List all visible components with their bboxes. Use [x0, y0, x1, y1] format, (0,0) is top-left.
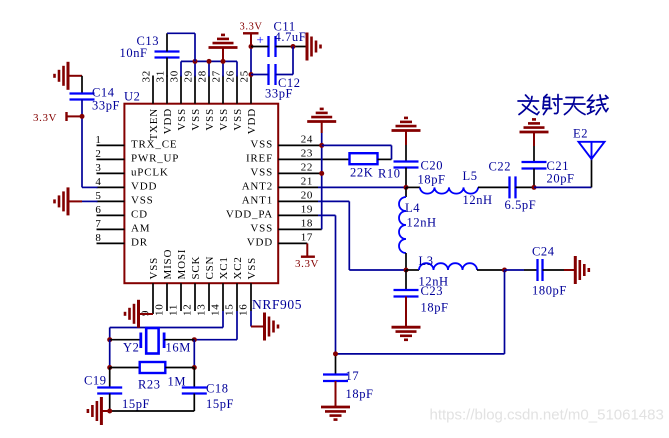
svg-text:C20: C20 [421, 159, 444, 173]
svg-text:26: 26 [225, 70, 237, 83]
pin number 30 [169, 70, 181, 83]
capacitor C18 [182, 368, 207, 412]
svg-text:6.5pF: 6.5pF [505, 198, 537, 212]
wire VSS column right [321, 133, 323, 229]
svg-text:16: 16 [238, 303, 250, 316]
svg-text:18pF: 18pF [421, 301, 449, 315]
resistor R10 22K [350, 153, 378, 164]
pin number 21 [301, 175, 313, 187]
designator U2 [124, 90, 140, 104]
svg-text:MISO: MISO [162, 249, 174, 280]
pin number 2 [95, 148, 101, 160]
svg-text:VDD: VDD [131, 180, 157, 192]
pin 26 VSS stub [236, 76, 238, 104]
pin name VSS [148, 257, 160, 280]
svg-text:L3: L3 [419, 254, 434, 268]
svg-text:C23: C23 [421, 284, 444, 298]
pin name DR [131, 236, 148, 248]
svg-text:3.3V: 3.3V [240, 22, 263, 33]
pin number 19 [301, 203, 313, 215]
ground bottom left [88, 397, 110, 425]
pin number 5 [95, 190, 101, 202]
pin 13 CSN stub [208, 283, 210, 311]
ground above pin 24 [307, 109, 336, 133]
svg-text:NRF905: NRF905 [252, 297, 302, 312]
pin number 31 [155, 70, 167, 83]
pin 30 VSS stub [180, 76, 182, 104]
wire ground to C14 [81, 76, 83, 94]
capacitor C12 [269, 64, 276, 85]
svg-text:C19: C19 [84, 374, 107, 388]
pin 8 DR stub [97, 242, 125, 244]
svg-text:VSS: VSS [250, 166, 273, 178]
svg-text:C22: C22 [489, 160, 512, 174]
wire pin31 to C13 and loop to bus [167, 33, 195, 76]
pin number 14 [210, 303, 222, 316]
svg-text:4.7uF: 4.7uF [275, 30, 307, 44]
label C21 [547, 159, 570, 173]
capacitor C17 [323, 375, 348, 382]
node crystal right [192, 337, 197, 342]
label L3 [419, 254, 434, 268]
svg-text:21: 21 [301, 175, 313, 187]
crystal Y2 16M [110, 328, 195, 354]
label 3.3V left [33, 112, 57, 124]
label 22K [350, 166, 373, 180]
svg-text:10nF: 10nF [120, 46, 148, 60]
svg-text:VDD: VDD [246, 108, 258, 134]
pin name TRX_CE [131, 138, 177, 150]
svg-text:33pF: 33pF [265, 87, 293, 101]
svg-text:17: 17 [346, 369, 360, 383]
svg-text:33pF: 33pF [92, 99, 120, 113]
wire C22 to C21 node [516, 186, 535, 188]
pin number 15 [224, 303, 236, 316]
svg-text:XC1: XC1 [218, 256, 230, 279]
pin 24 VSS stub [278, 144, 322, 146]
value 4.7uF [275, 30, 307, 44]
pin number 9 [140, 310, 152, 316]
pin name VDD [131, 180, 157, 192]
value 15pF (C19) [122, 397, 150, 411]
svg-text:10: 10 [154, 303, 166, 316]
svg-text:5: 5 [95, 190, 101, 202]
svg-text:VSS: VSS [250, 138, 273, 150]
pin name VDD [247, 236, 273, 248]
svg-text:L4: L4 [405, 201, 420, 215]
pin number 28 [197, 70, 209, 83]
pin 14 XC1 stub [222, 283, 224, 311]
pin name XC2 [232, 256, 244, 279]
pin name VSS [232, 108, 244, 131]
value 12nH (L4) [407, 216, 437, 230]
svg-text:VSS: VSS [246, 257, 258, 280]
svg-text:24: 24 [301, 133, 313, 145]
svg-text:CSN: CSN [204, 256, 216, 280]
pin number 25 [239, 70, 251, 83]
value 180pF [532, 284, 567, 298]
svg-text:12nH: 12nH [463, 193, 493, 207]
label 发射天线 (transmit antenna) [518, 95, 608, 115]
pin 5 VSS stub [97, 200, 125, 202]
ground below C17 [321, 381, 350, 420]
wire VSS bus top [181, 61, 237, 76]
pin name XC1 [218, 256, 230, 279]
pin number 4 [95, 176, 101, 188]
pin 25 VDD stub [250, 76, 252, 104]
pin number 18 [301, 217, 313, 229]
node pin25/C12 [249, 72, 254, 77]
svg-text:25: 25 [239, 70, 251, 83]
value 33pF (C14) [92, 99, 120, 113]
label E2 [573, 127, 588, 141]
node C14/3.3V [80, 114, 85, 119]
pin 6 CD stub [97, 214, 125, 216]
pin 21 ANT2 stub [278, 186, 318, 188]
node R23 right [192, 365, 197, 370]
svg-text:7: 7 [95, 218, 101, 230]
label C20 [421, 159, 444, 173]
svg-text:13: 13 [196, 303, 208, 316]
pin 27 VSS stub [222, 76, 224, 104]
value 33pF (C12) [265, 87, 293, 101]
svg-text:+: + [257, 32, 265, 47]
svg-text:3: 3 [95, 162, 101, 174]
resistor R23 1M [110, 362, 195, 373]
svg-text:R23: R23 [138, 378, 161, 392]
node L3/C24/VDD_PA [502, 268, 507, 273]
svg-text:18pF: 18pF [346, 387, 374, 401]
pin number 22 [301, 161, 313, 173]
svg-text:14: 14 [210, 303, 222, 316]
watermark [430, 407, 664, 424]
wire L4 to ANT1 node [405, 253, 407, 270]
pin name VSS [246, 257, 258, 280]
pin name AM [131, 222, 150, 234]
pin 29 VSS stub [194, 76, 196, 104]
ground above C20 [392, 118, 421, 145]
pin name VSS [218, 108, 230, 131]
pin number 32 [141, 70, 153, 83]
label C12 [278, 76, 301, 90]
pin 9 VSS stub [152, 283, 154, 311]
svg-text:11: 11 [168, 304, 180, 316]
svg-text:20: 20 [301, 189, 313, 201]
wire VDD_PA pin19 down [318, 215, 336, 374]
pin name TXEN [148, 108, 160, 141]
value 20pF [547, 172, 575, 186]
svg-text:30: 30 [169, 70, 181, 83]
pin 20 ANT1 stub [278, 200, 318, 202]
label R23 [138, 378, 161, 392]
svg-text:8: 8 [95, 232, 101, 244]
pin number 17 [301, 231, 313, 243]
ground right of C11 [307, 33, 321, 61]
capacitor C22 [510, 176, 516, 198]
pin name MOSI [176, 249, 188, 280]
node pin19 rail [333, 351, 338, 356]
capacitor C24 [505, 259, 543, 281]
pin 17 VDD stub [278, 242, 307, 244]
pin name VSS [190, 108, 202, 131]
svg-text:VSS: VSS [131, 194, 154, 206]
svg-text:C24: C24 [532, 245, 555, 259]
node pin 22 [319, 171, 324, 176]
svg-text:16M: 16M [166, 341, 191, 355]
capacitor C13 [155, 52, 180, 58]
pin number 13 [196, 303, 208, 316]
wire ground to pin 5 [82, 200, 98, 202]
label C18 [206, 382, 229, 396]
ground top left [55, 62, 83, 90]
label C19 [84, 374, 107, 388]
svg-text:uPCLK: uPCLK [131, 166, 169, 178]
svg-text:15: 15 [224, 303, 236, 316]
svg-text:VSS: VSS [148, 257, 160, 280]
svg-text:C14: C14 [92, 86, 115, 100]
svg-text:VDD: VDD [247, 236, 273, 248]
capacitor C19 [97, 368, 122, 412]
wire pin 9 to ground [139, 311, 154, 314]
svg-text:E2: E2 [573, 127, 588, 141]
wire crystal rails down to R23 [110, 340, 195, 368]
pin 28 VSS stub [208, 76, 210, 104]
pin name VSS [250, 166, 273, 178]
svg-text:SCK: SCK [190, 256, 202, 280]
pin number 1 [95, 134, 101, 146]
pin name VSS [131, 194, 154, 206]
svg-text:DR: DR [131, 236, 148, 248]
value 10nF [120, 46, 148, 60]
pin name VSS [176, 108, 188, 131]
svg-text:4: 4 [95, 176, 101, 188]
svg-text:180pF: 180pF [532, 284, 567, 298]
pin 10 MISO stub [166, 283, 168, 311]
wire node to L3 [406, 269, 419, 271]
pin name VSS [250, 222, 273, 234]
label 16M [166, 341, 191, 355]
wire RF node down to L4 [405, 187, 407, 197]
svg-text:VSS: VSS [232, 108, 244, 131]
svg-text:28: 28 [197, 70, 209, 83]
label C23 [421, 284, 444, 298]
ground right of pin 16 [265, 313, 279, 341]
svg-text:ANT1: ANT1 [242, 194, 273, 206]
svg-text:15pF: 15pF [122, 397, 150, 411]
capacitor C11 [269, 36, 276, 57]
svg-text:https://blog.csdn.net/m0_51061: https://blog.csdn.net/m0_51061483 [430, 407, 664, 424]
value 18pF (C17) [346, 387, 374, 401]
inductor L3 [419, 263, 477, 270]
label L4 [405, 201, 420, 215]
pin number 6 [95, 204, 101, 216]
svg-text:15pF: 15pF [206, 397, 234, 411]
pin name uPCLK [131, 166, 169, 178]
svg-text:CD: CD [131, 208, 148, 220]
node RF/C20/L4/L5 [404, 185, 409, 190]
pin name IREF [246, 152, 273, 164]
wire pin25 vertical [250, 47, 252, 76]
pin number 10 [154, 303, 166, 316]
svg-text:22K: 22K [350, 166, 373, 180]
svg-text:18: 18 [301, 217, 313, 229]
svg-text:C18: C18 [206, 382, 229, 396]
svg-text:32: 32 [141, 70, 153, 83]
value 6.5pF [505, 198, 537, 212]
antenna E2 [579, 142, 605, 159]
svg-text:22: 22 [301, 161, 313, 173]
ground top middle [209, 35, 238, 62]
power 3.3V left [67, 112, 83, 121]
pin 16 VSS stub [250, 283, 252, 311]
junction on bus at pin 27 [221, 59, 226, 64]
pin name ANT2 [242, 180, 273, 192]
svg-text:Y2: Y2 [123, 341, 139, 355]
plus sign C11 [257, 32, 265, 47]
wire C21 to RF line [533, 169, 535, 188]
svg-text:VSS: VSS [190, 108, 202, 131]
label C14 [92, 86, 115, 100]
svg-text:31: 31 [155, 70, 167, 83]
svg-text:1: 1 [95, 134, 101, 146]
value 18pF (C20) [418, 173, 446, 187]
wire ANT1 pin20 routing [318, 201, 406, 270]
svg-text:IREF: IREF [246, 152, 273, 164]
label C22 [489, 160, 512, 174]
value 15pF (C18) [206, 397, 234, 411]
label R10 [378, 167, 401, 181]
svg-text:3.3V: 3.3V [295, 258, 319, 270]
pin number 11 [168, 304, 180, 316]
label Y2 [123, 341, 139, 355]
pin number 23 [301, 147, 313, 159]
pin 19 VDD_PA stub [278, 214, 318, 216]
capacitor C23 [394, 270, 419, 297]
svg-text:PWR_UP: PWR_UP [131, 152, 179, 164]
wire C20 to RF node [405, 168, 407, 188]
svg-text:VSS: VSS [250, 222, 273, 234]
svg-text:20pF: 20pF [547, 172, 575, 186]
svg-text:L5: L5 [463, 169, 478, 183]
pin 11 MOSI stub [180, 283, 182, 311]
node bottom rail/ground [107, 409, 112, 414]
pin 7 AM stub [97, 228, 125, 230]
power 3.3V pin17 [301, 243, 315, 256]
wire XC1 pin14 to crystal rail [110, 311, 223, 340]
svg-text:3.3V: 3.3V [33, 112, 57, 124]
node crystal left [107, 337, 112, 342]
pin number 8 [95, 232, 101, 244]
pin number 12 [182, 303, 194, 316]
pin name VDD [162, 108, 174, 134]
wire RF to antenna [534, 159, 592, 187]
svg-text:18pF: 18pF [418, 173, 446, 187]
capacitor C14 [70, 94, 95, 100]
wire C12 leads [251, 47, 293, 75]
power 3.3V top [243, 33, 259, 46]
wire ground to C20 [405, 145, 407, 162]
svg-text:MOSI: MOSI [176, 249, 188, 280]
IC U2 NRF905 body [124, 104, 278, 284]
pin 18 VSS stub [278, 228, 322, 230]
pin name VDD [246, 108, 258, 134]
value 12nH (L3) [419, 275, 449, 289]
pin number 24 [301, 133, 313, 145]
svg-text:23: 23 [301, 147, 313, 159]
svg-text:29: 29 [183, 70, 195, 83]
pin 12 SCK stub [194, 283, 196, 311]
pin 23 IREF stub [278, 158, 349, 160]
junction on bus at pin 29 [193, 59, 198, 64]
pin name CSN [204, 256, 216, 280]
label C24 [532, 245, 555, 259]
svg-text:ANT2: ANT2 [242, 180, 273, 192]
wire ground to C21 [533, 146, 535, 162]
pin number 16 [238, 303, 250, 316]
svg-text:U2: U2 [124, 90, 140, 104]
wire VDD_PA rail to L3/C24 node [336, 270, 505, 354]
ground left (pin 5) [55, 187, 83, 215]
svg-text:TXEN: TXEN [148, 108, 160, 141]
pin number 26 [225, 70, 237, 83]
value 12nH (L5) [463, 193, 493, 207]
designator NRF905 [252, 297, 302, 312]
pin number 3 [95, 162, 101, 174]
svg-text:27: 27 [211, 70, 223, 83]
svg-text:VSS: VSS [218, 108, 230, 131]
label 3.3V top [240, 22, 263, 33]
label 1M [168, 375, 187, 389]
svg-text:AM: AM [131, 222, 150, 234]
node C21/RF [532, 185, 537, 190]
wire bottom rail [110, 410, 195, 412]
wire L3 to C24 node [477, 269, 505, 271]
label C11 [274, 20, 296, 34]
pin name VDD_PA [226, 208, 273, 220]
wire C14/3.3V to pin 4 [82, 100, 98, 188]
pin name VSS [250, 138, 273, 150]
label 3.3V pin17 [295, 258, 319, 270]
ground left of pin 9 [125, 300, 139, 328]
svg-text:VDD_PA: VDD_PA [226, 208, 273, 220]
pin name PWR_UP [131, 152, 179, 164]
pin name VSS [204, 108, 216, 131]
pin 31 VDD stub [166, 76, 168, 104]
wire RF node to L5 [406, 186, 420, 188]
label 17 [346, 369, 360, 383]
node R23 left [107, 365, 112, 370]
node pin 24 [319, 143, 324, 148]
pin number 29 [183, 70, 195, 83]
inductor L5 [420, 187, 478, 193]
svg-text:12: 12 [182, 303, 194, 316]
svg-text:VSS: VSS [204, 108, 216, 131]
pin 2 PWR_UP stub [97, 158, 125, 160]
wire XC2 pin15 to crystal right [194, 311, 237, 340]
pin 1 TRX_CE stub [97, 144, 125, 146]
pin 22 VSS stub [278, 172, 322, 174]
junction on bus at pin 28 [207, 59, 212, 64]
node pin25/3.3V/C11 [249, 44, 254, 49]
ground above C21 [520, 119, 549, 146]
capacitor C21 [522, 162, 547, 169]
pin number 20 [301, 189, 313, 201]
ground right of C24 [575, 256, 589, 284]
value 18pF (C23) [421, 301, 449, 315]
wire L5 to C22 [478, 186, 510, 188]
inductor L4 [399, 197, 406, 253]
pin name SCK [190, 256, 202, 280]
